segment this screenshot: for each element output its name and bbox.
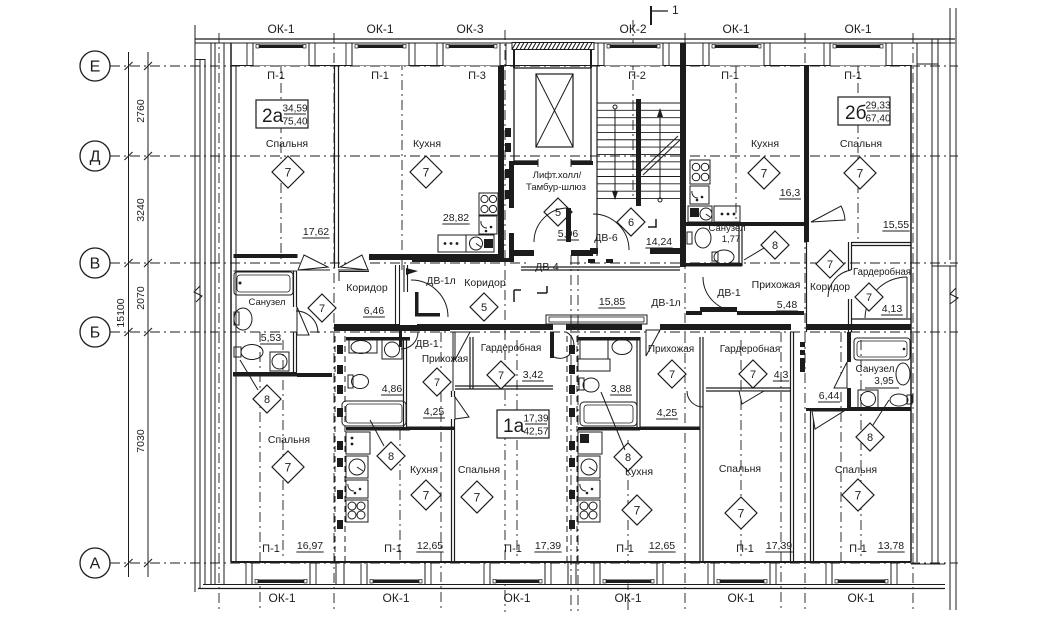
sanuzel 5.53 right wall lower bbox=[293, 332, 295, 372]
toilet C bbox=[896, 363, 910, 385]
svg-text:Кухня: Кухня bbox=[410, 464, 438, 476]
door from corridor down mid bbox=[550, 332, 554, 358]
sanuzel 1.77 right wall bbox=[738, 226, 740, 266]
vent shaft strip 2 bbox=[567, 336, 577, 562]
left joint line 4 bbox=[223, 43, 225, 585]
svg-text:В: В bbox=[90, 256, 101, 273]
svg-text:Санузел: Санузел bbox=[856, 364, 895, 375]
svg-text:Коридор: Коридор bbox=[346, 282, 388, 294]
room diamond 7 bedroom B bbox=[725, 497, 757, 529]
svg-text:17,62: 17,62 bbox=[303, 226, 329, 238]
svg-text:ОК-3: ОК-3 bbox=[457, 22, 484, 36]
vertical axis line bbox=[259, 332, 261, 612]
window ОК-1 top bbox=[830, 43, 886, 66]
svg-text:Спальня: Спальня bbox=[458, 464, 500, 476]
room diamond 7 corridor 6.46 bbox=[308, 294, 336, 322]
vent clips left of elevator bbox=[505, 128, 511, 137]
svg-text:15100: 15100 bbox=[115, 298, 127, 327]
counter kitchen 2a bbox=[438, 235, 466, 252]
right step line bbox=[932, 265, 956, 267]
room diamond 7 bedroom C bbox=[842, 479, 874, 511]
window ОК-1 bottom bbox=[490, 563, 545, 584]
room diamond 8 bathroom A bbox=[377, 442, 405, 470]
svg-text:ДВ-6: ДВ-6 bbox=[594, 232, 618, 244]
sink kitchen 2b bbox=[690, 186, 709, 204]
svg-text:Гардеробная: Гардеробная bbox=[853, 266, 911, 278]
bottom right ledge bbox=[911, 563, 945, 565]
svg-text:7030: 7030 bbox=[135, 429, 147, 453]
room diamond 5 corridor bbox=[470, 293, 498, 321]
left outer line 1 bbox=[194, 25, 196, 592]
elevator shaft bbox=[514, 68, 591, 161]
svg-text:Санузел: Санузел bbox=[248, 297, 285, 308]
svg-text:Прихожая: Прихожая bbox=[752, 279, 801, 291]
room diamond 7 kitchen 2a bbox=[410, 156, 442, 188]
sanuzel C left wall bbox=[847, 332, 851, 362]
window ОК-1 top bbox=[709, 43, 764, 66]
window ОК-2 top bbox=[604, 43, 663, 66]
svg-text:Кухня: Кухня bbox=[751, 138, 779, 150]
lift lobby left wall upper bbox=[509, 161, 514, 208]
window ОК-1 top bbox=[253, 43, 309, 66]
area 4.86 bbox=[381, 383, 403, 395]
area 16.3 bbox=[779, 187, 801, 199]
vertical axis line bbox=[684, 33, 686, 612]
vertical axis line bbox=[840, 332, 842, 562]
vertical axis line bbox=[780, 332, 782, 612]
svg-text:Гардеробная: Гардеробная bbox=[720, 343, 781, 355]
sanuzel 5.53 right wall upper bbox=[293, 271, 295, 307]
wall bedroom-kitchen 2a right line bbox=[338, 66, 340, 268]
door koridor2b to kitchen (top wedge) bbox=[811, 206, 845, 222]
axis circle В bbox=[80, 248, 110, 278]
svg-text:Коридор: Коридор bbox=[464, 277, 506, 289]
bottom outer wall line 2 bbox=[198, 588, 945, 590]
door DV-1 2b arc bbox=[703, 277, 737, 311]
svg-text:8: 8 bbox=[625, 452, 631, 464]
area 4.25 B bbox=[656, 407, 678, 419]
area 4.13 bbox=[881, 303, 903, 315]
right joint line 1 bbox=[931, 39, 933, 564]
svg-text:7: 7 bbox=[857, 166, 864, 180]
bedroom 16.97 top wall segment bbox=[297, 373, 332, 377]
window ОК-1 bottom bbox=[367, 563, 425, 584]
bathroom B bottom wall bbox=[578, 427, 640, 431]
vertical axis line bbox=[632, 20, 634, 200]
hatched wall band over elevator bbox=[512, 43, 594, 50]
window ОК-3 top bbox=[443, 43, 500, 66]
wall koridor2b right lower bbox=[848, 299, 850, 332]
vertical axis line bbox=[804, 33, 806, 612]
wall stub left of door 2b bbox=[686, 311, 702, 315]
svg-text:4,3: 4,3 bbox=[774, 369, 789, 381]
bottom wall interior line bbox=[231, 561, 911, 563]
svg-text:3,95: 3,95 bbox=[874, 376, 894, 387]
vertical axis line bbox=[912, 33, 914, 612]
apartment tag 1a left bbox=[497, 410, 549, 438]
stair diagonal break line bbox=[640, 136, 678, 172]
axis line А bbox=[110, 562, 958, 564]
svg-text:34,59: 34,59 bbox=[282, 104, 307, 115]
prihozhaya 2b bottom wall bbox=[737, 311, 804, 315]
svg-text:Прихожая: Прихожая bbox=[648, 344, 694, 355]
clip on wall bbox=[588, 259, 595, 263]
vertical axis line bbox=[401, 60, 403, 270]
svg-text:ОК-1: ОК-1 bbox=[615, 591, 642, 605]
bedroom A left wall bbox=[451, 391, 453, 397]
bathroom A fixtures bbox=[349, 339, 377, 353]
svg-text:17,39: 17,39 bbox=[766, 540, 792, 552]
top wall interior line bbox=[231, 65, 911, 67]
vertical axis line bbox=[516, 340, 518, 560]
sanuzel 1.77 bottom wall bbox=[686, 263, 742, 267]
bathtub C bbox=[854, 338, 910, 360]
room diamond 7 kitchen A bbox=[411, 480, 441, 510]
axis line Б bbox=[110, 331, 958, 333]
svg-text:7: 7 bbox=[855, 488, 862, 502]
door koridor2b to garderobnaya arc bbox=[828, 270, 851, 297]
svg-text:ДВ-1: ДВ-1 bbox=[415, 338, 439, 350]
toilet B tank bbox=[579, 378, 584, 390]
axis line В bbox=[110, 262, 958, 264]
vertical axis line bbox=[740, 340, 742, 560]
svg-text:ОК-1: ОК-1 bbox=[845, 22, 872, 36]
bathroom A top wall bbox=[346, 337, 410, 341]
svg-text:3,42: 3,42 bbox=[523, 369, 544, 381]
bedroom 2a bottom wall bbox=[234, 254, 298, 258]
svg-text:П-1: П-1 bbox=[849, 543, 867, 555]
svg-text:Санузел: Санузел bbox=[708, 223, 745, 234]
corridor bench rect bbox=[546, 315, 647, 324]
vertical axis line bbox=[440, 332, 442, 612]
axis circle Б bbox=[80, 317, 110, 347]
right outer line 1 bbox=[949, 8, 951, 260]
right outer line 1b bbox=[949, 266, 951, 610]
bedroom 2a bottom wall inner line bbox=[234, 270, 298, 272]
prihozhaya A entry door bbox=[399, 330, 402, 347]
stair treads bbox=[598, 102, 683, 104]
left joint line 3 bbox=[214, 43, 216, 585]
room diamond 5 lift hall bbox=[544, 198, 572, 226]
door leaf DV-1 2b bbox=[700, 307, 737, 312]
left joint line 2 bbox=[210, 43, 212, 585]
svg-text:П-1: П-1 bbox=[504, 543, 522, 555]
svg-text:П-1: П-1 bbox=[721, 70, 739, 82]
room diamond 7 garderobnaya A bbox=[487, 361, 515, 389]
svg-text:Спальня: Спальня bbox=[266, 138, 308, 150]
wall below kitchen 2b bbox=[686, 222, 804, 226]
bathroom B shelf bbox=[578, 359, 610, 371]
door bedroom 16.97 bbox=[296, 311, 318, 333]
prihozhaya B bottom wall bbox=[640, 427, 700, 431]
vertical axis line bbox=[735, 43, 737, 222]
washing machine sanuzel 5.53 bbox=[270, 352, 289, 371]
svg-text:1: 1 bbox=[672, 3, 679, 17]
stove kitchen 2a bbox=[479, 193, 498, 215]
apartment tag 2a bbox=[256, 100, 308, 128]
wall kitchen2b-bedroom2b bbox=[804, 66, 809, 242]
svg-text:П-1: П-1 bbox=[267, 70, 285, 82]
wall kitchen 2a - lift lobby (thick) bbox=[498, 66, 504, 258]
garderobnaya B bbox=[706, 387, 790, 389]
corridor 6.46 right wall bbox=[395, 265, 397, 324]
svg-text:ДВ-1л: ДВ-1л bbox=[426, 275, 456, 287]
right wall line 2 bbox=[916, 43, 918, 562]
area 3.88 bbox=[610, 383, 632, 395]
svg-text:17,39: 17,39 bbox=[523, 414, 548, 425]
svg-text:П-1: П-1 bbox=[736, 543, 754, 555]
svg-text:42,57: 42,57 bbox=[523, 427, 548, 438]
door leaf DV-4 bbox=[566, 208, 571, 242]
svg-text:17,39: 17,39 bbox=[535, 540, 561, 552]
door DV-1l arc bbox=[411, 280, 448, 317]
svg-text:67,40: 67,40 bbox=[865, 114, 890, 125]
area 15.55 bbox=[882, 219, 909, 231]
wall koridor2b left bbox=[806, 242, 808, 332]
window ОК-1 bottom bbox=[600, 563, 657, 584]
room diamond 7 garderobnaya B bbox=[739, 360, 767, 388]
lift lobby door arc DV-4 bbox=[534, 208, 568, 242]
svg-text:Тамбур-шлюз: Тамбур-шлюз bbox=[526, 182, 586, 193]
svg-text:Д: Д bbox=[90, 149, 101, 166]
garderobnaya 2b bottom wall bbox=[851, 318, 911, 320]
svg-text:ОК-1: ОК-1 bbox=[504, 591, 531, 605]
clip on wall 2 bbox=[606, 259, 613, 263]
bathroom B washer box bbox=[580, 340, 608, 359]
svg-text:Спальня: Спальня bbox=[835, 464, 877, 476]
stair bottom landing wall bbox=[590, 248, 598, 254]
svg-text:7: 7 bbox=[827, 259, 833, 271]
right top tie line bbox=[917, 63, 938, 65]
section mark 1 top bbox=[651, 3, 679, 25]
svg-text:5,53: 5,53 bbox=[261, 332, 282, 344]
svg-text:7: 7 bbox=[761, 166, 768, 180]
svg-text:7: 7 bbox=[423, 488, 430, 502]
svg-text:Спальня: Спальня bbox=[719, 463, 761, 475]
svg-text:П-1: П-1 bbox=[371, 70, 389, 82]
vent clips apt C bbox=[800, 342, 805, 347]
svg-text:15,55: 15,55 bbox=[883, 219, 909, 231]
room diamond 8 sanuzel 5.53 bbox=[253, 385, 281, 413]
svg-text:8: 8 bbox=[264, 394, 270, 406]
area 13.78 bbox=[877, 540, 904, 552]
svg-text:Кухня: Кухня bbox=[413, 138, 441, 150]
svg-text:6,46: 6,46 bbox=[364, 305, 385, 317]
room diamond 7 bedroom 16.97 bbox=[272, 451, 304, 483]
area 12.65 A bbox=[416, 540, 443, 552]
svg-text:8: 8 bbox=[388, 451, 394, 463]
room diamond 7 kitchen B bbox=[622, 495, 652, 525]
svg-text:15,85: 15,85 bbox=[599, 296, 625, 308]
door into bedroom C bbox=[812, 411, 844, 429]
apartment tag 2b bbox=[838, 97, 891, 125]
window ОК-1 bottom bbox=[714, 563, 770, 584]
bedroom B right wall bbox=[790, 332, 792, 562]
axis circle А bbox=[80, 548, 110, 578]
right joint line 2 bbox=[937, 39, 939, 564]
stove kitchen 2b bbox=[690, 160, 710, 184]
leader 8 bathroom B bbox=[601, 392, 625, 450]
svg-text:ОК-2: ОК-2 bbox=[620, 22, 647, 36]
left outer line 2 bbox=[199, 59, 201, 588]
svg-text:5,48: 5,48 bbox=[777, 299, 798, 311]
svg-text:П-1: П-1 bbox=[262, 543, 280, 555]
svg-text:75,40: 75,40 bbox=[282, 117, 307, 128]
bathroom A right wall bbox=[403, 337, 405, 427]
svg-text:7: 7 bbox=[285, 460, 292, 474]
axis line Е bbox=[110, 65, 958, 67]
bedroom B left wall bbox=[699, 337, 701, 562]
area 3.42 bbox=[522, 369, 544, 381]
room diamond 7 kitchen 2b bbox=[748, 157, 780, 189]
svg-text:Е: Е bbox=[90, 59, 101, 76]
svg-text:ОК-1: ОК-1 bbox=[269, 591, 296, 605]
svg-text:ОК-1: ОК-1 bbox=[728, 591, 755, 605]
svg-text:2760: 2760 bbox=[135, 99, 147, 123]
door DV-1l hinge flag bbox=[406, 268, 418, 275]
vertical axis line bbox=[570, 255, 572, 612]
right inner wall bbox=[910, 65, 912, 562]
vertical axis line bbox=[218, 33, 220, 612]
vertical axis line bbox=[504, 30, 506, 612]
room diamond 7 bedroom 2a bbox=[272, 156, 304, 188]
left notch bbox=[195, 59, 205, 61]
door arc bedroom 17.39 left bbox=[452, 332, 454, 391]
door DV-1l leaf bbox=[415, 292, 419, 316]
svg-text:12,65: 12,65 bbox=[417, 540, 443, 552]
svg-text:2070: 2070 bbox=[135, 286, 147, 310]
svg-text:8: 8 bbox=[772, 240, 778, 252]
wall bedroom C left below sanuzel bbox=[810, 411, 812, 562]
window ОК-1 bottom bbox=[832, 563, 891, 584]
leader 8 to sanuzel bbox=[240, 360, 258, 390]
svg-text:ДВ-1: ДВ-1 bbox=[717, 287, 741, 299]
svg-text:6: 6 bbox=[628, 217, 634, 229]
svg-text:5: 5 bbox=[481, 302, 487, 314]
room diamond 6 stairs bbox=[617, 208, 645, 236]
svg-text:Прихожая: Прихожая bbox=[422, 354, 468, 365]
area 17.62 bbox=[302, 226, 329, 238]
svg-text:ОК-1: ОК-1 bbox=[723, 22, 750, 36]
kitchen A fixture strip bbox=[346, 432, 370, 454]
svg-text:П-1: П-1 bbox=[844, 70, 862, 82]
stair flight arrows bbox=[613, 105, 617, 109]
vent shaft strip 1 bbox=[335, 336, 345, 562]
room diamond 7 prihozhaya A bbox=[423, 368, 451, 396]
svg-text:3,88: 3,88 bbox=[611, 383, 632, 395]
door wedge garderobnaya B bbox=[739, 391, 764, 404]
bathtub sanuzel 5.53 bbox=[234, 272, 293, 295]
svg-text:ОК-1: ОК-1 bbox=[848, 591, 875, 605]
elevator shaft wall up-extension right bbox=[590, 50, 592, 69]
svg-text:28,82: 28,82 bbox=[443, 212, 469, 224]
lift lobby left wall lower bbox=[509, 233, 514, 260]
svg-text:ДВ-1л: ДВ-1л bbox=[651, 297, 681, 309]
svg-text:4,13: 4,13 bbox=[882, 303, 903, 315]
bottom outer wall line bbox=[203, 584, 945, 586]
svg-text:1,77: 1,77 bbox=[722, 234, 741, 245]
door bedroom 2a triangle bbox=[298, 255, 328, 270]
vertical axis line bbox=[399, 430, 401, 560]
svg-text:Кухня: Кухня bbox=[625, 466, 653, 478]
area 17.39 B bbox=[765, 540, 792, 552]
vertical axis line bbox=[282, 340, 284, 560]
lift lobby bottom wall right bbox=[571, 250, 593, 256]
svg-text:14,24: 14,24 bbox=[646, 236, 672, 248]
room diamond 8 apt 2b bbox=[761, 231, 789, 259]
top outer wall line 2 bbox=[195, 42, 955, 44]
sink kitchen 2a bbox=[479, 216, 497, 234]
window ОК-1 top bbox=[352, 43, 409, 66]
svg-text:7: 7 bbox=[434, 377, 440, 389]
svg-text:Спальня: Спальня bbox=[268, 434, 310, 446]
svg-text:13,78: 13,78 bbox=[878, 540, 904, 552]
area 5.48 bbox=[776, 299, 798, 311]
right outer line 2 bbox=[955, 8, 957, 610]
svg-text:4,25: 4,25 bbox=[657, 407, 678, 419]
svg-text:7: 7 bbox=[634, 503, 641, 517]
room diamond 7 garderobnaya 2b bbox=[855, 283, 883, 311]
svg-text:29,33: 29,33 bbox=[865, 101, 890, 112]
leader line 8 to sanuzel bbox=[744, 248, 764, 260]
lift lobby top wall bbox=[509, 161, 593, 165]
svg-text:7: 7 bbox=[285, 165, 292, 179]
svg-text:4,86: 4,86 bbox=[382, 383, 403, 395]
lift lobby bottom wall left bbox=[509, 250, 534, 256]
dimension line inner bbox=[147, 52, 149, 577]
room diamond 8 bathroom B bbox=[614, 443, 642, 471]
bathroom A bottom wall bbox=[346, 427, 410, 431]
left inner wall 2 bbox=[235, 65, 237, 562]
svg-text:Лифт.холл/: Лифт.холл/ bbox=[533, 170, 582, 181]
washbasin B bbox=[612, 340, 632, 355]
area 16.97 bbox=[296, 540, 323, 552]
door DV-6 arc bbox=[593, 214, 629, 250]
vent strip wall continuation bottom band bbox=[335, 563, 337, 584]
kitchen B fixture strip bbox=[578, 432, 602, 454]
svg-text:7: 7 bbox=[669, 369, 675, 381]
bathtub B bbox=[580, 402, 637, 426]
bathroom B top wall bbox=[578, 337, 640, 341]
door sanuzel C bbox=[834, 362, 847, 388]
toilet sanuzel 5.53 bbox=[234, 308, 252, 330]
door arc DV-1l right apartment bbox=[865, 277, 907, 318]
svg-text:6,44: 6,44 bbox=[819, 390, 840, 402]
room diamond 7 koridor 2b bbox=[816, 250, 844, 278]
svg-text:2б: 2б bbox=[845, 103, 867, 124]
window ОК-1 bottom bbox=[252, 563, 310, 584]
svg-text:4,25: 4,25 bbox=[424, 406, 445, 418]
leader 8 sanuzel C bbox=[873, 400, 889, 425]
svg-text:П-1: П-1 bbox=[384, 543, 402, 555]
corridor top wall at kitchen 2a bbox=[369, 254, 498, 260]
right wall break symbol bbox=[950, 288, 958, 304]
left inner wall bbox=[230, 43, 232, 562]
area 5.53 bbox=[260, 332, 282, 344]
svg-text:Спальня: Спальня bbox=[840, 138, 882, 150]
svg-text:7: 7 bbox=[498, 370, 504, 382]
counter kitchen 2b bbox=[688, 206, 712, 222]
dimension line outer bbox=[128, 52, 130, 577]
axis line Д bbox=[110, 155, 958, 157]
area 6.44 bbox=[818, 390, 840, 402]
sanuzel C bottom wall bbox=[851, 407, 911, 411]
svg-text:7: 7 bbox=[738, 506, 745, 520]
vertical axis line bbox=[857, 43, 859, 242]
corner mark stairs bbox=[648, 219, 656, 227]
svg-text:ОК-1: ОК-1 bbox=[268, 22, 295, 36]
area 28.82 bbox=[442, 212, 469, 224]
